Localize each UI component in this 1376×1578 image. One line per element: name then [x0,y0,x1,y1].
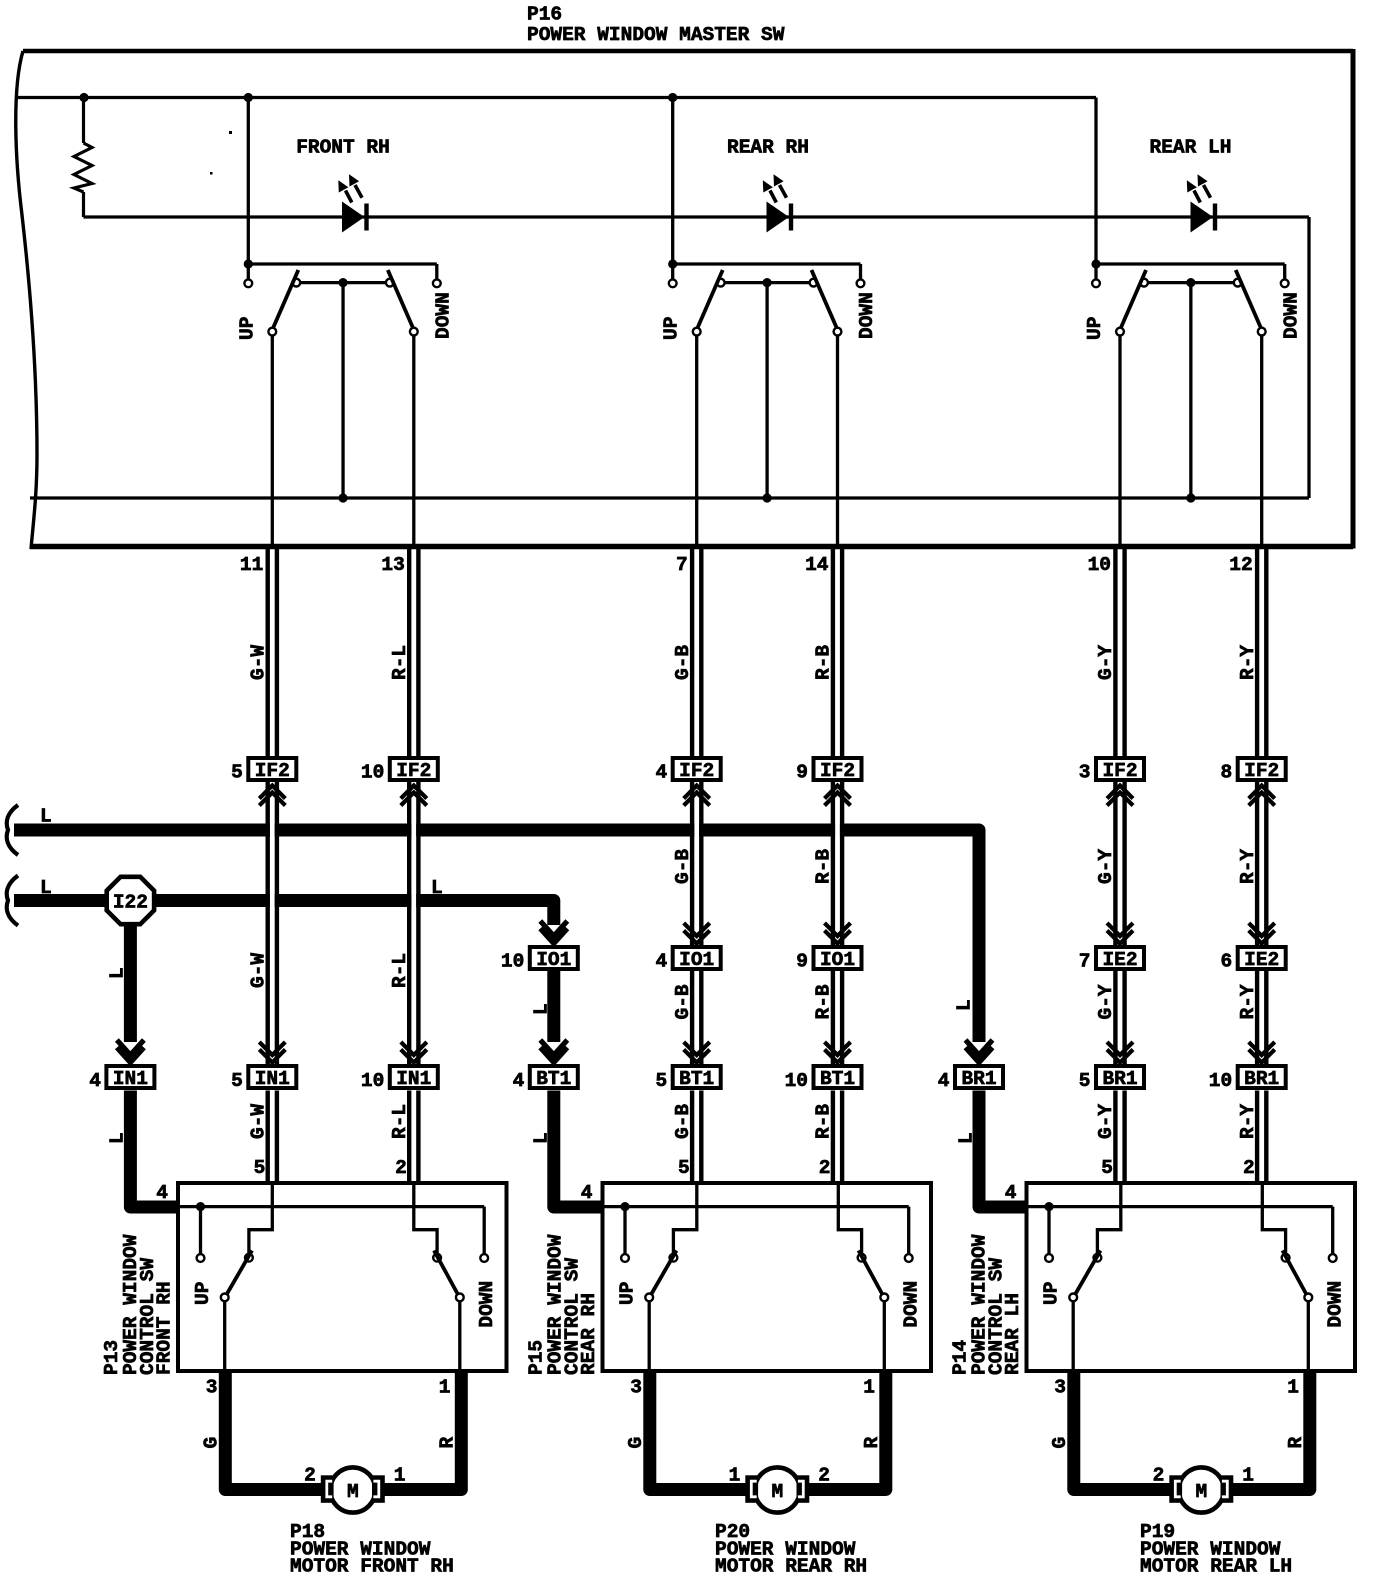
junction connector IF2 (G-Y) [1096,758,1144,782]
terminal REAR LH UP moving contact [1116,328,1124,336]
svg-text:1: 1 [863,1377,875,1399]
wire G-Y segment IF2 to IE2 [1113,782,1117,945]
arrow into BR1 (L) [966,1040,993,1055]
svg-text:L: L [40,877,52,899]
svg-text:FRONT RH: FRONT RH [296,137,390,159]
svg-text:IE2: IE2 [1102,949,1137,971]
wire P13 DOWN output to pin 1 [458,1301,461,1371]
terminal P14 DOWN fixed contact [1329,1254,1337,1262]
wire crossing gap col R-L over lower L bus [411,892,416,909]
svg-text:IF2: IF2 [679,760,714,782]
connector P14 POWER WINDOW CONTROL SW REAR LH box [1027,1183,1356,1371]
wire P14 pin 5 entry jog [1097,1183,1120,1254]
wire P14 supply line [1027,1205,1333,1208]
connector P16 label [527,4,785,47]
svg-text:10: 10 [785,1070,808,1092]
wire G-Y segment P16 to IF2 [1113,544,1117,758]
wire R-Y segment IE2 to BR1 [1255,971,1259,1064]
wire P13 supply to DOWN fixed contact [483,1207,486,1254]
svg-text:G-B: G-B [672,1104,694,1139]
node REAR RH bottom rail junction [763,493,772,502]
arrow into IE2 (G-Y) [1107,923,1133,936]
svg-text:1: 1 [1242,1465,1254,1487]
svg-text:REAR LH: REAR LH [1150,137,1232,159]
svg-text:BT1: BT1 [679,1068,714,1090]
terminal P15 DOWN pivot [858,1254,866,1262]
svg-text:L: L [40,806,52,828]
svg-text:2: 2 [819,1157,831,1179]
svg-text:R-Y: R-Y [1237,1104,1259,1139]
terminal P15 UP output contact [645,1294,653,1302]
switch blade REAR RH DOWN [812,270,838,330]
terminal P14 DOWN output contact [1304,1294,1312,1302]
wire REAR LH DOWN output [1260,336,1263,550]
wire G-W segment IN1 to control switch [266,1091,270,1184]
svg-text:10: 10 [361,762,384,784]
wire P13 UP output to pin 3 [223,1301,226,1371]
svg-text:UP: UP [1041,1282,1063,1305]
wire FRONT RH DOWN fixed contact stub [435,264,438,279]
wire REAR LH UP fixed contact stub [1094,264,1097,279]
connector P15 POWER WINDOW CONTROL SW REAR RH box [603,1183,932,1371]
node P13 supply junction [196,1202,205,1211]
switch blade P14 DOWN [1283,1251,1308,1296]
wire R P15 pin 1 to motor [803,1371,886,1490]
svg-text:2: 2 [304,1465,316,1487]
wire P15 DOWN output to pin 1 [883,1301,886,1371]
wire R-B segment IF2 to IO1 [831,782,835,945]
wire FRONT RH UP fixed contact stub [247,264,250,279]
wire G P14 pin 3 to motor [1074,1371,1176,1490]
svg-text:4: 4 [156,1182,168,1204]
svg-text:IN1: IN1 [113,1068,148,1090]
svg-text:5: 5 [678,1157,690,1179]
wire crossing gap col G-B over upper L bus [694,822,699,839]
svg-text:11: 11 [240,554,263,576]
wire G P13 pin 3 to motor [225,1371,326,1490]
terminal FRONT RH rocker pivot right [386,279,394,287]
label P15 POWER WINDOW CONTROL SW REAR RH [525,1234,600,1375]
junction connector IF2 (G-B) [673,758,721,782]
node FRONT RH header left junction [244,259,253,268]
terminal P14 DOWN pivot [1282,1254,1290,1262]
svg-text:DOWN: DOWN [1324,1281,1346,1328]
terminal P13 DOWN fixed contact [480,1254,488,1262]
arrow into BT1 (R-B) [825,1042,851,1055]
svg-text:REAR RH: REAR RH [727,137,809,159]
svg-text:IF2: IF2 [1244,760,1279,782]
svg-text:IF2: IF2 [820,760,855,782]
switch blade P15 UP [651,1251,677,1296]
svg-text:DOWN: DOWN [476,1281,498,1328]
terminal REAR RH DOWN moving contact [834,328,842,336]
svg-text:R-B: R-B [813,645,835,680]
wire R-B segment BT1 to control switch [831,1091,835,1184]
label P18 POWER WINDOW MOTOR FRONT RH [290,1521,454,1578]
P16 box top border [23,49,1353,54]
LED indicator REAR RH [763,174,791,232]
switch FRONT RH feed drop from supply rail [247,98,250,265]
svg-text:MOTOR REAR LH: MOTOR REAR LH [1140,1556,1292,1578]
switch blade P13 DOWN [434,1251,459,1296]
svg-text:10: 10 [361,1070,384,1092]
wire REAR RH DOWN output [836,336,839,550]
wire P15 UP output to pin 3 [648,1301,651,1371]
node FRONT RH bottom rail junction [338,493,347,502]
break symbol on lower L bus [7,876,18,926]
junction connector IN1 (L) [106,1066,154,1090]
terminal REAR LH UP fixed contact [1092,279,1100,287]
P16 box bottom border [30,544,1353,550]
svg-text:R-B: R-B [813,984,835,1019]
svg-text:DOWN: DOWN [856,292,878,339]
svg-text:14: 14 [805,554,829,576]
arrow into IN1 (R-L) [401,1042,427,1055]
wire P14 DOWN output to pin 1 [1307,1301,1310,1371]
svg-text:G-Y: G-Y [1095,984,1117,1019]
svg-text:2: 2 [1243,1157,1255,1179]
svg-text:M: M [347,1481,359,1503]
node rail junction REAR RH [668,93,677,102]
junction connector BT1 (L) [530,1066,578,1090]
svg-text:G-B: G-B [672,849,694,884]
LED indicator REAR LH [1187,174,1215,232]
svg-text:IO1: IO1 [820,949,855,971]
terminal P13 DOWN output contact [456,1294,464,1302]
terminal P13 UP pivot [245,1254,253,1262]
svg-text:R-B: R-B [813,1104,835,1139]
switch blade P15 DOWN [859,1251,884,1296]
wire P14 UP output to pin 3 [1072,1301,1075,1371]
node P15 supply junction [620,1202,629,1211]
wire L bus upper (thick) from left break to BR1 drop [14,830,979,1042]
wire L from IO1 to BT1 (thick) [547,971,560,1042]
terminal P13 UP fixed contact [197,1254,205,1262]
wire P15 supply to DOWN fixed contact [907,1207,910,1254]
svg-text:R-B: R-B [813,849,835,884]
svg-text:R-L: R-L [389,1104,411,1139]
wire FRONT RH UP output [271,336,274,550]
svg-text:IO1: IO1 [536,949,571,971]
wire REAR LH contact header [1096,262,1285,265]
svg-text:UP: UP [661,317,683,340]
wire REAR LH DOWN fixed contact stub [1283,264,1286,279]
switch blade FRONT RH UP [272,270,298,330]
switch blade REAR LH UP [1120,270,1146,330]
switch blade FRONT RH DOWN [388,270,414,330]
svg-text:L: L [106,967,128,979]
svg-text:3: 3 [630,1377,642,1399]
svg-text:REAR RH: REAR RH [578,1293,600,1375]
terminal P13 DOWN pivot [433,1254,441,1262]
arrow into BT1 (G-B) [684,1042,710,1055]
junction connector IN1 (R-L) [390,1066,438,1090]
wire bottom common rail inside P16 [30,496,1309,499]
switch blade REAR RH UP [697,270,723,330]
wire P15 pin 5 entry jog [673,1183,696,1254]
junction connector BR1 (L) [955,1066,1003,1090]
svg-text:4: 4 [513,1070,525,1092]
terminal P15 DOWN fixed contact [905,1254,913,1262]
wire REAR LH UP output [1118,336,1121,550]
svg-text:L: L [530,1003,552,1015]
svg-text:1: 1 [729,1465,741,1487]
wire G-W segment P16 to IF2 [266,544,270,758]
junction connector BR1 (G-Y) [1096,1066,1144,1090]
arrow into IN1 (G-W) [259,1042,285,1055]
svg-text:4: 4 [1005,1182,1017,1204]
junction connector IN1 (G-W) [248,1066,296,1090]
arrow into IF2 (R-B) [825,786,851,799]
wire R-Y segment IF2 to IE2 [1255,782,1259,945]
wire R-L segment IF2 to IN1 [407,782,411,1064]
terminal FRONT RH DOWN moving contact [410,328,418,336]
svg-text:12: 12 [1229,554,1252,576]
wire illumination rail (LED anode) inside P16 [84,215,1310,218]
motor P19 POWER WINDOW MOTOR REAR LH [1169,1467,1233,1512]
junction connector IO1 (G-B) [673,947,721,971]
junction connector BT1 (G-B) [673,1066,721,1090]
svg-text:1: 1 [439,1377,451,1399]
terminal P14 UP fixed contact [1045,1254,1053,1262]
terminal P13 UP output contact [221,1294,229,1302]
svg-text:9: 9 [796,762,808,784]
wire P13 supply to UP fixed contact [199,1207,202,1254]
wire P15 supply line [603,1205,909,1208]
svg-text:G-Y: G-Y [1095,849,1117,884]
svg-text:13: 13 [381,554,404,576]
scan speck [229,131,232,134]
wire R-Y segment BR1 to control switch [1255,1091,1259,1184]
terminal REAR RH UP moving contact [693,328,701,336]
junction connector IE2 (R-Y) [1238,947,1286,971]
svg-text:UP: UP [192,1282,214,1305]
scan speck [210,172,213,175]
wire crossing gap col G-W over lower L bus [270,892,275,909]
node REAR LH rocker center junction [1186,278,1195,287]
svg-text:3: 3 [1079,762,1091,784]
svg-text:IF2: IF2 [1102,760,1137,782]
svg-text:10: 10 [1209,1070,1232,1092]
svg-text:4: 4 [938,1070,950,1092]
terminal REAR RH DOWN fixed contact [857,279,865,287]
svg-text:2: 2 [395,1157,407,1179]
wire REAR RH common to bottom rail [765,283,768,498]
svg-text:4: 4 [581,1182,593,1204]
junction connector IF2 (R-B) [814,758,862,782]
svg-text:R-Y: R-Y [1237,984,1259,1019]
svg-text:5: 5 [655,1070,667,1092]
terminal REAR RH UP fixed contact [669,279,677,287]
svg-text:7: 7 [676,554,688,576]
terminal P15 UP pivot [670,1254,678,1262]
junction connector IE2 (G-Y) [1096,947,1144,971]
node resistor top junction [79,93,88,102]
svg-text:G-Y: G-Y [1095,1104,1117,1139]
wire FRONT RH DOWN output [412,336,415,550]
junction connector IO1 (L) [530,947,578,971]
svg-text:R-L: R-L [389,953,411,988]
node rail junction FRONT RH [244,93,253,102]
svg-text:BT1: BT1 [536,1068,571,1090]
wire G-B segment BT1 to control switch [690,1091,694,1184]
svg-text:BR1: BR1 [961,1068,996,1090]
svg-text:6: 6 [1220,951,1232,973]
svg-text:DOWN: DOWN [433,292,455,339]
arrow into BR1 (G-Y) [1107,1042,1133,1055]
wire P13 pin 5 entry jog [249,1183,272,1254]
svg-text:4: 4 [655,951,667,973]
wire REAR RH rocker bar [721,281,814,284]
wire L from BR1 to P14 pin 4 [979,1091,1027,1208]
svg-text:7: 7 [1079,951,1091,973]
wire REAR LH common to bottom rail [1189,283,1192,498]
arrow into BR1 (R-Y) [1249,1042,1275,1055]
label P13 POWER WINDOW CONTROL SW FRONT RH [101,1234,176,1375]
svg-text:5: 5 [1101,1157,1113,1179]
wire P14 supply to UP fixed contact [1047,1207,1050,1254]
terminal P14 UP pivot [1094,1254,1102,1262]
svg-text:DOWN: DOWN [1280,292,1302,339]
svg-text:DOWN: DOWN [900,1281,922,1328]
svg-text:L: L [106,1132,128,1144]
terminal FRONT RH rocker pivot left [292,279,300,287]
LED indicator FRONT RH [338,174,366,232]
svg-text:L: L [431,877,443,899]
svg-text:9: 9 [796,951,808,973]
terminal REAR LH DOWN fixed contact [1281,279,1289,287]
terminal P15 UP fixed contact [621,1254,629,1262]
arrow into IF2 (R-L) [401,786,427,799]
resistor (illumination dimmer) [74,98,92,218]
junction connector IO1 (R-B) [814,947,862,971]
wire P15 supply to UP fixed contact [623,1207,626,1254]
label P19 POWER WINDOW MOTOR REAR LH [1140,1521,1292,1578]
svg-text:BR1: BR1 [1244,1068,1279,1090]
svg-text:FRONT RH: FRONT RH [154,1281,176,1375]
wire supply rail (top) inside P16 [15,96,1096,99]
wire REAR RH DOWN fixed contact stub [859,264,862,279]
svg-text:4: 4 [655,762,667,784]
arrow into BT1 (L) [540,1040,567,1055]
svg-text:UP: UP [1084,317,1106,340]
svg-text:3: 3 [1054,1377,1066,1399]
svg-text:R-L: R-L [389,645,411,680]
svg-text:UP: UP [617,1282,639,1305]
wire G-B segment IO1 to BT1 [690,971,694,1064]
arrow into IF2 (R-Y) [1249,786,1275,799]
label P20 POWER WINDOW MOTOR REAR RH [715,1521,867,1578]
P16 box right border [1351,49,1356,549]
svg-text:5: 5 [1079,1070,1091,1092]
svg-text:IF2: IF2 [396,760,431,782]
wire L from BT1 to P15 pin 4 [554,1091,603,1208]
arrow into IO1 (R-B) [825,923,851,936]
svg-text:IN1: IN1 [255,1068,290,1090]
wire R-L segment IN1 to control switch [407,1091,411,1184]
connector P13 POWER WINDOW CONTROL SW FRONT RH box [178,1183,507,1371]
junction I22 octagon [107,877,154,924]
terminal P14 UP output contact [1069,1294,1077,1302]
svg-text:2: 2 [1153,1465,1165,1487]
wire REAR RH UP fixed contact stub [671,264,674,279]
svg-text:G-W: G-W [248,1104,270,1139]
junction connector IF2 (G-W) [248,758,296,782]
arrow into IF2 (G-W) [259,786,285,799]
wire P13 supply line [178,1205,484,1208]
svg-text:10: 10 [1088,554,1111,576]
node P14 supply junction [1044,1202,1053,1211]
svg-text:R-Y: R-Y [1237,849,1259,884]
arrow into IF2 (G-B) [684,786,710,799]
svg-text:UP: UP [236,317,258,340]
break symbol on upper L bus [7,805,18,855]
wire G P15 pin 3 to motor [650,1371,752,1490]
junction connector IF2 (R-Y) [1238,758,1286,782]
wire G-Y segment BR1 to control switch [1113,1091,1117,1184]
svg-text:G-B: G-B [672,984,694,1019]
wire crossing gap col R-L over upper L bus [411,822,416,839]
switch blade P13 UP [226,1251,252,1296]
svg-text:G-W: G-W [248,645,270,680]
svg-text:1: 1 [394,1465,406,1487]
switch REAR LH feed drop from supply rail [1094,98,1097,265]
wire FRONT RH rocker bar [296,281,390,284]
junction connector IF2 (R-L) [390,758,438,782]
node REAR RH header left junction [668,259,677,268]
svg-text:2: 2 [818,1465,830,1487]
terminal FRONT RH UP moving contact [268,328,276,336]
svg-text:IN1: IN1 [396,1068,431,1090]
wire L from I22 down to junction IN1 [124,901,137,1043]
wire R P13 pin 1 to motor [379,1371,462,1490]
svg-text:G-W: G-W [248,953,270,988]
svg-text:4: 4 [89,1070,101,1092]
svg-text:MOTOR REAR RH: MOTOR REAR RH [715,1556,867,1578]
wire L from IN1 to P13 pin 4 [130,1091,178,1208]
motor P20 POWER WINDOW MOTOR REAR RH [745,1467,809,1512]
wire REAR RH contact header [673,262,861,265]
svg-text:IO1: IO1 [679,949,714,971]
svg-text:8: 8 [1220,762,1232,784]
switch blade REAR LH DOWN [1236,270,1262,330]
wire right side link LED rail to bottom rail [1307,217,1310,498]
svg-text:G-Y: G-Y [1095,645,1117,680]
junction connector BT1 (R-B) [814,1066,862,1090]
wire REAR RH UP output [695,336,698,550]
terminal REAR RH rocker pivot left [717,279,725,287]
svg-text:REAR LH: REAR LH [1002,1293,1024,1375]
svg-text:P16: P16 [527,4,562,26]
arrow into IO1 (G-B) [684,923,710,936]
arrow into IF2 (G-Y) [1107,786,1133,799]
wire G-W segment IF2 to IN1 [266,782,270,1064]
svg-text:L: L [956,1132,978,1144]
motor P18 POWER WINDOW MOTOR FRONT RH [321,1467,385,1512]
svg-text:IF2: IF2 [255,760,290,782]
svg-text:I22: I22 [113,892,148,914]
wire R-Y segment P16 to IF2 [1255,544,1259,758]
terminal P15 DOWN output contact [880,1294,888,1302]
wire P14 supply to DOWN fixed contact [1331,1207,1334,1254]
wire R P14 pin 1 to motor [1227,1371,1310,1490]
arrow into IO1 (L) [540,921,567,936]
svg-text:MOTOR FRONT RH: MOTOR FRONT RH [290,1556,454,1578]
svg-text:POWER WINDOW MASTER SW: POWER WINDOW MASTER SW [527,24,785,46]
wire G-Y segment IE2 to BR1 [1113,971,1117,1064]
wire L bus lower (thick) from left break through I22 to IO1 drop [14,901,554,926]
svg-text:5: 5 [254,1157,266,1179]
